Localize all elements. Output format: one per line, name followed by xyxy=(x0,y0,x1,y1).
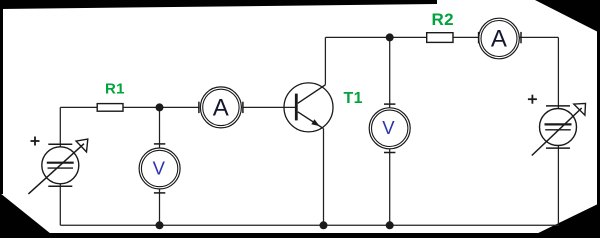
black border: right edge strip xyxy=(597,30,600,206)
svg-text:V: V xyxy=(153,158,166,179)
wire: collector riser xyxy=(324,37,326,84)
wire: ammeter A2 to right corner xyxy=(519,36,558,38)
node: junction top wire before R2 xyxy=(386,33,394,41)
wire: right vertical upper (corner to source) xyxy=(557,37,559,108)
black border: bottom strip xyxy=(0,233,600,238)
svg-text:A: A xyxy=(491,26,507,53)
node: junction after R1 xyxy=(156,103,164,111)
wire: R2 to ammeter A2 xyxy=(453,36,479,38)
svg-text:A: A xyxy=(213,95,229,122)
voltmeter V2 xyxy=(369,104,410,152)
wire: right vertical lower (source to bottom wire) xyxy=(557,145,559,225)
black border: left edge strip xyxy=(0,7,3,194)
label G1 plus sign xyxy=(31,137,40,146)
wire: main left horizontal (source to R1) xyxy=(60,106,97,108)
black border: bottom-right corner triangle xyxy=(528,203,600,238)
wire: top horizontal (riser to R2) xyxy=(325,36,426,38)
wire: middle V2 branch lower xyxy=(389,149,391,226)
label G2 plus sign xyxy=(528,95,537,104)
black border: bottom-left corner triangle xyxy=(0,193,56,238)
ammeter A1 xyxy=(199,87,243,128)
svg-text:R1: R1 xyxy=(105,81,125,98)
wire: ammeter A1 to transistor base xyxy=(243,106,295,108)
wire: emitter vertical xyxy=(323,129,325,226)
source G2 (right variable DC source) xyxy=(532,103,586,155)
black border: top strip xyxy=(0,0,437,9)
wire: left vertical upper (corner to source top) xyxy=(59,107,61,147)
transistor T1 xyxy=(284,83,333,132)
wire: middle V2 branch upper xyxy=(389,37,391,108)
wire: bottom horizontal xyxy=(60,224,558,226)
node: bottom wire V2 branch xyxy=(386,221,394,229)
svg-text:R2: R2 xyxy=(432,10,454,29)
ammeter A2 xyxy=(479,18,521,59)
wire: left vertical lower (source bottom to bottom wire) xyxy=(59,184,61,225)
source G1 (left variable DC source) xyxy=(28,139,87,194)
resistor R1 xyxy=(97,104,123,112)
svg-text:T1: T1 xyxy=(344,90,363,107)
resistor R2 xyxy=(427,33,453,43)
voltmeter V1 xyxy=(139,144,180,193)
node: bottom wire V1 branch xyxy=(156,221,164,229)
node: bottom wire emitter branch xyxy=(320,221,328,229)
svg-text:V: V xyxy=(382,117,395,138)
wire: V1 branch lower xyxy=(159,189,161,226)
wire: R1 to ammeter A1 xyxy=(123,106,199,108)
wire: V1 branch upper xyxy=(159,107,161,148)
black border: top-right corner triangle xyxy=(535,0,600,33)
